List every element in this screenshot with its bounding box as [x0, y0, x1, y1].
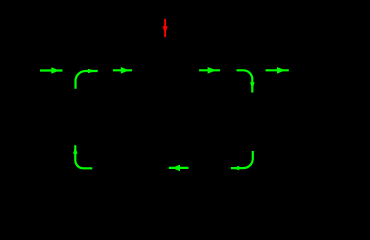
wire right branch upper [337, 71, 339, 109]
current arrow I6 (green, right-then-down into middle branch at node B) [237, 70, 255, 92]
node B junction [251, 69, 255, 73]
wire right branch lower [337, 140, 339, 168]
wire bottom horizontal segment [76, 167, 339, 169]
resistor R1 [247, 108, 258, 140]
wire top-left horizontal segment [76, 70, 166, 72]
wire top-middle horizontal segment [165, 70, 253, 72]
current arrow I3 (green, up-then-right around top-left corner) [76, 69, 98, 89]
source V1 [63, 107, 89, 133]
current arrow I7 (green, rightward after node B) [266, 67, 289, 74]
node C junction [251, 166, 255, 170]
current arrow I4 (green, rightward before node A) [113, 67, 132, 74]
current arrow I5 (green, rightward after node A) [199, 67, 220, 74]
wire middle branch upper [252, 71, 254, 109]
wire middle branch lower [252, 140, 254, 168]
node A junction [163, 69, 167, 73]
current arrow I8 (green, left-then-up around bottom-left corner) [73, 145, 92, 168]
current arrow I10 (green, down-then-left from middle branch at node C) [231, 151, 253, 170]
current arrow I1 (red, supply current downward) [163, 19, 168, 37]
wire supply feed vertical [164, 8, 166, 71]
wire left branch lower [75, 133, 77, 168]
wire top-right horizontal segment [253, 70, 339, 72]
resistor R2 [333, 108, 344, 140]
current arrow I9 (green, leftward on bottom wire) [169, 165, 189, 172]
current arrow I2 (green, rightward on top-left wire) [40, 67, 63, 74]
wire left branch upper [75, 71, 77, 108]
